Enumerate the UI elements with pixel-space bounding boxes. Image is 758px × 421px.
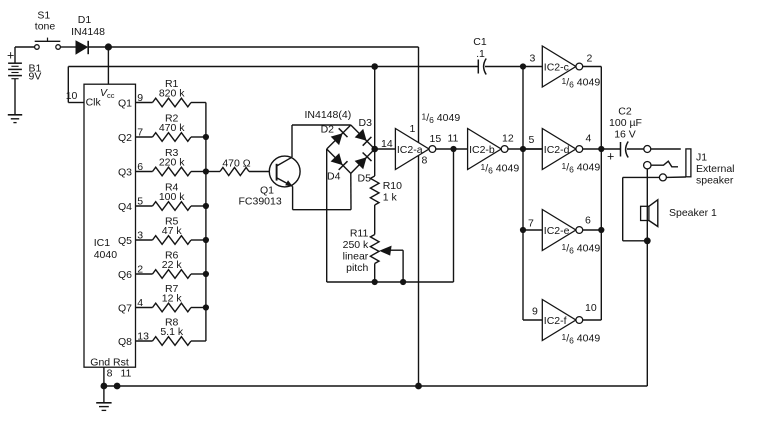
svg-text:IC1: IC1 [94,237,111,249]
node gnd pin [101,383,108,390]
node bridge right [371,146,378,153]
diode D1 IN4148 [71,14,105,55]
svg-text:IN4148: IN4148 [71,26,105,38]
svg-text:470 Ω: 470 Ω [222,158,250,170]
svg-text:D4: D4 [327,171,341,183]
wire IC2 power rail drop [418,47,420,386]
svg-text:IC2-f: IC2-f [544,315,567,327]
svg-text:100 k: 100 k [159,191,185,203]
wire bus to IC2-f [523,319,542,321]
node feedback tap [371,63,378,70]
svg-text:15: 15 [430,133,442,145]
resistor R10 1k [370,176,402,205]
wire Vcc drop to IC1 [107,47,109,84]
wire IC2 input bus [522,67,524,321]
wire R10 to R11 [374,205,376,235]
capacitor C2 100uF 16V [607,106,642,164]
node bus Q4 [203,203,209,209]
transistor Q1 FC39013 [239,156,301,207]
wire Q3 to R3 [136,171,153,173]
diode bridge outline [327,125,375,173]
wire IC2 output bus [600,67,602,321]
node IC2-d out [598,146,604,152]
wire ring to speaker [646,169,648,241]
svg-text:220 k: 220 k [159,157,185,169]
wire Q4 to R4 [136,205,153,207]
wire IC2-e out [583,229,602,231]
jack J1 body [686,149,691,177]
wire bus to IC2-c [523,66,542,68]
svg-text:IN4148(4): IN4148(4) [305,109,352,121]
node rst pin [114,383,121,390]
svg-text:1/6 4049: 1/6 4049 [562,76,601,90]
wire Q6 to R6 [136,273,153,275]
wire Q1 to R1 [136,102,153,104]
svg-text:tone: tone [35,21,56,33]
wire bridge left drop [326,149,328,282]
IC IC1 4040 body [84,84,136,367]
op-amp U IC2-f inverter [542,300,582,341]
svg-text:1/6 4049: 1/6 4049 [562,332,601,346]
node bus Q3 [203,168,209,174]
svg-text:Q5: Q5 [118,235,132,247]
ground (battery) [8,115,22,123]
svg-text:7: 7 [528,218,534,230]
op-amp U IC2-a inverter [395,129,435,170]
svg-text:D3: D3 [359,117,373,129]
svg-text:Q8: Q8 [118,336,132,348]
node IC2 input bus top [520,63,526,69]
svg-text:Q1: Q1 [118,98,132,110]
svg-text:C1: C1 [473,36,487,48]
wire bottom rail [104,385,647,387]
svg-text:Speaker 1: Speaker 1 [669,207,717,219]
svg-text:Q4: Q4 [118,201,132,213]
jack J1 ring contact [644,162,651,169]
svg-text:5: 5 [529,134,535,146]
svg-text:4: 4 [586,133,592,145]
jack J1 spring contact [651,161,678,167]
node bus Q7 [203,304,209,310]
node R11 bottom [372,279,378,285]
svg-text:D5: D5 [358,173,372,185]
svg-text:+: + [607,150,614,164]
wire bus to IC2-d [523,148,542,150]
svg-text:D2: D2 [321,124,335,136]
wire R6 to bus [191,273,206,275]
svg-text:820 k: 820 k [159,88,185,100]
node V+ junction [105,43,112,50]
wire battery to S1 [15,46,35,48]
svg-text:IC2-d: IC2-d [544,144,570,156]
wire R8 to bus [191,340,206,342]
svg-text:1/6 4049: 1/6 4049 [481,162,520,176]
switch S1 tone [35,10,61,50]
svg-text:Q6: Q6 [118,269,132,281]
jack J1 sleeve contact [659,174,666,181]
op-amp U IC2-b inverter [468,129,508,170]
node IC2 input bus r2 [520,146,526,152]
wire bus to C2 [601,148,620,150]
wire R7 to bus [191,307,206,309]
svg-text:1: 1 [410,123,416,135]
diode D5 [355,153,372,170]
svg-text:470 k: 470 k [159,122,185,134]
op-amp U IC2-c inverter [542,46,582,87]
svg-text:16 V: 16 V [614,129,636,141]
svg-text:11: 11 [448,133,459,145]
wire R4 to bus [191,205,206,207]
diode D4 [331,153,348,170]
svg-text:4040: 4040 [94,249,118,261]
wire IC1 gnd pin [103,367,105,386]
resistor R5 47 k [153,216,192,245]
svg-text:11: 11 [121,368,132,380]
wire bus to IC2-e [523,229,542,231]
wire bus to 470 [206,171,220,173]
wire sleeve left [623,176,660,178]
svg-text:Clk: Clk [86,97,102,109]
wire speaker to rail [646,241,648,386]
svg-text:pitch: pitch [346,262,368,274]
svg-text:linear: linear [343,251,369,263]
svg-text:FC39013: FC39013 [239,196,282,208]
op-amp U IC2-e inverter [542,210,582,251]
wire D1 to node [89,46,108,48]
wire S1 to D1 [60,46,75,48]
speaker Speaker 1 [641,200,717,227]
svg-text:8: 8 [107,368,113,380]
wire bridge to R10 [374,149,376,176]
svg-text:6: 6 [585,215,591,227]
svg-text:External: External [696,163,735,175]
resistor R2 470 k [153,113,192,142]
node IC2 input bus r3 [520,227,526,233]
wire resistor bus [205,103,207,342]
wire sleeve right [666,176,686,178]
svg-text:1/6 4049: 1/6 4049 [422,112,461,126]
resistor R6 22 k [153,250,192,279]
svg-text:8: 8 [422,155,428,167]
svg-text:10: 10 [585,302,597,314]
svg-text:1/6 4049: 1/6 4049 [562,161,601,175]
wire Q8 to R8 [136,340,153,342]
svg-text:1 k: 1 k [383,192,398,204]
op-amp U IC2-d inverter [542,129,582,170]
diode D3 [355,129,372,146]
svg-text:Q2: Q2 [118,132,132,144]
node IC2-a out [450,146,456,152]
potentiometer R11 250k [343,227,379,274]
wire Q5 to R5 [136,239,153,241]
resistor R1 820 k [153,78,192,107]
wire R2 to bus [191,136,206,138]
node IC2-e out [598,227,604,233]
capacitor C1 .1 [473,36,487,75]
wire Q2 to R2 [136,136,153,138]
svg-text:12: 12 [502,133,514,145]
wire bridge to IC2-a input [375,148,396,150]
battery B1 [7,47,42,114]
wire top rail [108,46,418,48]
wire C2 to tip [627,148,644,150]
svg-text:12 k: 12 k [162,293,183,305]
svg-text:2: 2 [587,53,593,65]
svg-text:IC2-e: IC2-e [544,225,570,237]
resistor R3 220 k [153,147,192,176]
resistor R4 100 k [153,182,192,211]
svg-text:10: 10 [66,90,78,102]
wire R11 to bottom [374,264,376,283]
node bus Q2 [203,134,209,140]
node speaker gnd [644,237,651,244]
svg-text:47 k: 47 k [162,225,183,237]
wire R1 to bus [191,102,206,104]
wire feedback to bridge [374,67,376,150]
wire IC2-b out [508,148,542,150]
svg-text:14: 14 [381,138,393,150]
svg-text:100 µF: 100 µF [609,117,642,129]
diode D2 [331,128,348,145]
wire R5 to bus [191,239,206,241]
svg-text:3: 3 [530,53,536,65]
svg-text:.1: .1 [476,48,485,60]
node IC2 gnd [415,383,422,390]
svg-text:speaker: speaker [696,175,734,187]
wire Q1 collector [292,125,351,157]
svg-text:+: + [7,49,14,63]
svg-text:9: 9 [532,306,538,318]
svg-text:J1: J1 [696,152,707,164]
svg-text:R11: R11 [350,227,369,239]
wire IC2-c out [583,66,602,68]
wire IC2-a out to R11 net [453,149,455,282]
node bus Q6 [203,271,209,277]
wire IC2-a out [436,148,468,150]
svg-text:Q7: Q7 [118,303,132,315]
wire C1 to bus [485,66,523,68]
wire IC2-d out [583,148,602,150]
svg-text:IC2-b: IC2-b [469,144,495,156]
svg-text:9V: 9V [29,71,42,83]
node wiper return [400,279,406,285]
ground (main) [96,386,111,410]
svg-text:D1: D1 [78,14,92,26]
wire 470 to Q1 base [249,171,269,173]
resistor R7 12 k [153,283,192,312]
wire Clk feedback [68,67,478,103]
svg-text:R10: R10 [383,180,402,192]
wire Q1 emitter [293,173,351,209]
wire IC2-f out [583,319,602,321]
wire R11 bottom net [327,281,454,283]
svg-text:IC2-a: IC2-a [397,144,423,156]
resistor R8 5.1 k [153,317,192,346]
wire sleeve branch [623,177,648,240]
svg-text:C2: C2 [618,106,632,118]
R11 wiper arrow [379,246,403,282]
svg-text:1/6 4049: 1/6 4049 [562,242,601,256]
svg-text:250 k: 250 k [343,239,369,251]
svg-text:5.1 k: 5.1 k [160,326,184,338]
node bus Q5 [203,237,209,243]
svg-text:IC2-c: IC2-c [544,62,569,74]
jack J1 tip contact [644,146,651,153]
wire R3 to bus [191,171,206,173]
svg-text:22 k: 22 k [162,259,183,271]
wire tip [651,148,681,150]
wire Q7 to R7 [136,307,153,309]
svg-text:Q3: Q3 [118,167,132,179]
resistor 470 ohm [220,158,251,176]
